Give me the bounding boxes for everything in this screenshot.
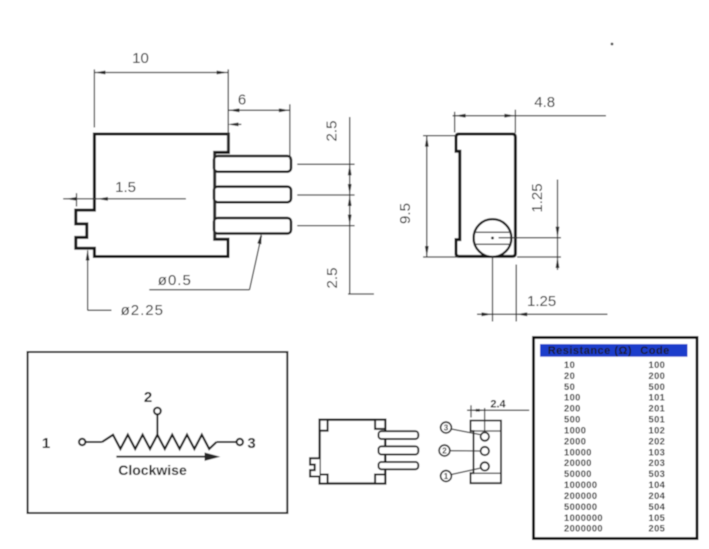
svg-text:501: 501 — [649, 415, 666, 425]
top view pin 3 — [379, 462, 419, 469]
svg-text:20000: 20000 — [564, 458, 592, 468]
schematic border box — [28, 352, 288, 513]
svg-text:Resistance (Ω): Resistance (Ω) — [548, 345, 632, 357]
svg-text:500000: 500000 — [564, 502, 597, 512]
terminal 1 wire — [85, 441, 102, 443]
svg-text:2: 2 — [144, 389, 152, 406]
pin 3 (bottom lead) — [214, 218, 291, 234]
svg-text:1000: 1000 — [564, 426, 586, 436]
svg-text:503: 503 — [649, 469, 666, 479]
body right face between pins — [214, 152, 216, 239]
svg-text:205: 205 — [649, 524, 666, 534]
svg-text:4.8: 4.8 — [534, 94, 555, 111]
vertical dimension line (pin pitch) — [349, 117, 351, 294]
dimension 6 line — [228, 109, 290, 111]
trimmer body (front view) — [456, 134, 515, 256]
svg-text:20: 20 — [564, 371, 575, 381]
corner pad bottom-right — [375, 475, 385, 484]
screw centerline below body — [492, 257, 494, 322]
corner pad top-left — [320, 420, 328, 431]
pad 2 — [481, 447, 489, 455]
screw center dot — [491, 237, 494, 240]
dimension 10 line — [94, 72, 227, 74]
svg-text:1.25: 1.25 — [529, 183, 546, 212]
svg-text:200000: 200000 — [564, 491, 597, 501]
pin 2 (middle lead) — [214, 187, 291, 203]
circled 2 — [439, 445, 450, 456]
svg-text:50000: 50000 — [564, 469, 592, 479]
svg-text:202: 202 — [649, 436, 666, 446]
svg-text:Clockwise: Clockwise — [118, 462, 187, 478]
svg-text:3: 3 — [247, 435, 255, 452]
svg-text:Code: Code — [640, 345, 670, 357]
svg-text:100: 100 — [649, 360, 666, 370]
small leader arrow at body corner — [228, 123, 239, 127]
svg-text:1.5: 1.5 — [115, 179, 136, 196]
terminal 3 circle — [237, 439, 243, 445]
dimension 10 extension lines — [93, 69, 95, 127]
svg-text:ø0.5: ø0.5 — [158, 272, 192, 289]
circled 1 — [441, 471, 452, 482]
svg-text:3: 3 — [444, 424, 449, 433]
svg-text:101: 101 — [649, 393, 666, 403]
terminal 1 circle — [79, 439, 85, 445]
circled 3 — [441, 422, 452, 433]
band separators — [471, 430, 502, 432]
svg-text:500: 500 — [564, 415, 581, 425]
svg-text:2000: 2000 — [564, 436, 586, 446]
svg-text:105: 105 — [649, 513, 666, 523]
svg-text:2.5: 2.5 — [324, 121, 341, 142]
svg-text:1.25: 1.25 — [527, 293, 556, 310]
corner pad top-right — [375, 420, 385, 429]
wiper wire — [156, 415, 158, 436]
svg-text:1000000: 1000000 — [564, 513, 603, 523]
top view body — [320, 420, 386, 484]
adjustment screw circle — [474, 219, 512, 257]
svg-text:1: 1 — [42, 435, 50, 452]
pin center reference lines — [297, 163, 354, 165]
table rows — [564, 360, 666, 534]
svg-text:204: 204 — [649, 491, 666, 501]
pad 1 — [481, 462, 489, 470]
top view pin 2 — [379, 446, 419, 454]
body bottom extension line — [517, 256, 561, 258]
pin 1 (top lead) — [214, 156, 291, 172]
svg-text:50: 50 — [564, 382, 575, 392]
svg-text:10: 10 — [132, 50, 149, 67]
dimension 4.8 — [454, 112, 456, 133]
trimmer body (side view) — [76, 134, 229, 257]
terminal 3 wire — [217, 441, 237, 443]
stray dot — [611, 43, 614, 46]
top view pin 1 — [379, 431, 419, 439]
corner pad bottom-left — [320, 475, 328, 484]
svg-text:2.5: 2.5 — [324, 268, 341, 289]
svg-text:10: 10 — [564, 360, 575, 370]
svg-text:200: 200 — [564, 404, 581, 414]
svg-text:ø2.25: ø2.25 — [121, 302, 164, 319]
screw slot lines — [475, 231, 511, 233]
pad 3 — [481, 432, 489, 440]
dimension 9.5 — [423, 135, 456, 137]
svg-text:100000: 100000 — [564, 480, 597, 490]
svg-text:203: 203 — [649, 458, 666, 468]
dimension 1.5 line — [63, 198, 186, 200]
svg-text:10000: 10000 — [564, 447, 592, 457]
svg-text:504: 504 — [649, 502, 666, 512]
svg-text:103: 103 — [649, 447, 666, 457]
left mounting tab — [310, 458, 320, 476]
svg-text:500: 500 — [649, 382, 666, 392]
clockwise arrow — [116, 456, 207, 458]
svg-text:9.5: 9.5 — [397, 203, 414, 224]
dimension 1.25 (horizontal, bottom) — [477, 313, 608, 315]
svg-text:6: 6 — [238, 92, 246, 109]
svg-text:104: 104 — [649, 480, 666, 490]
svg-text:102: 102 — [649, 426, 666, 436]
svg-text:201: 201 — [649, 404, 666, 414]
dimension 1.25 (vertical, right) — [557, 180, 559, 271]
wiper terminal circle — [154, 408, 161, 415]
screw center reference line — [499, 237, 562, 239]
table border — [534, 338, 698, 539]
svg-text:100: 100 — [564, 393, 581, 403]
svg-text:2.4: 2.4 — [490, 399, 506, 411]
footprint outline — [471, 421, 502, 484]
right edge extension below body — [515, 265, 517, 322]
svg-text:2: 2 — [442, 447, 447, 456]
svg-text:1: 1 — [444, 472, 449, 481]
svg-text:200: 200 — [649, 371, 666, 381]
svg-text:2000000: 2000000 — [564, 524, 603, 534]
resistor zigzag — [102, 435, 217, 449]
table header bar — [540, 344, 688, 357]
short bar — [348, 293, 374, 295]
